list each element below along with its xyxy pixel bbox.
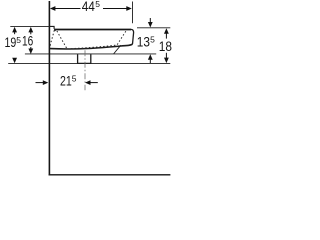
svg-text:19: 19 [5,34,17,50]
hidden bowl bottom dashed [67,30,126,49]
right rim-level extension line [137,27,170,29]
left dim 19.5 bottom arrow [12,58,17,64]
svg-text:44: 44 [82,0,95,14]
dim 18 top arrow [164,28,169,34]
svg-text:5: 5 [16,35,21,45]
dim 21.5 left arrow [36,82,44,84]
basin rim [54,29,131,31]
svg-text:5: 5 [72,74,77,84]
svg-text:21: 21 [60,73,72,89]
hidden overflow left dashed [50,30,54,46]
left dim 16 top arrow [28,27,33,33]
dim 44.5 right arrow [103,8,127,10]
svg-text:13: 13 [137,33,150,49]
bottom reference line (19.5 / 18) [8,62,170,64]
dim 13.5 top arrow [149,18,151,23]
drain centerline [84,50,86,90]
svg-text:5: 5 [95,0,100,9]
dim 13.5 bottom arrow [148,54,153,60]
hidden overflow top dashed [54,29,57,32]
drain trap box [77,54,91,63]
dim 18 bottom arrow [165,53,167,59]
top reference line at rim level (left) [10,25,48,27]
basin back ledge top [49,26,54,29]
dim 44.5 right extension line [132,2,134,24]
svg-text:16: 16 [22,32,33,48]
dim 21.5 right arrow [85,80,91,85]
svg-text:5: 5 [150,34,155,44]
svg-text:18: 18 [159,38,172,54]
basin underside [50,44,133,49]
floor line [49,174,171,175]
left dim 16 bottom arrow [30,47,32,50]
left dim 19.5 top arrow [12,27,17,33]
basin front-bottom step diagonal [114,45,121,54]
skirt bottom / 16 and 13.5 reference line [25,53,156,55]
hidden overflow right dashed [57,31,67,49]
wall line [49,1,51,176]
dim 44.5 left arrow [50,6,56,11]
